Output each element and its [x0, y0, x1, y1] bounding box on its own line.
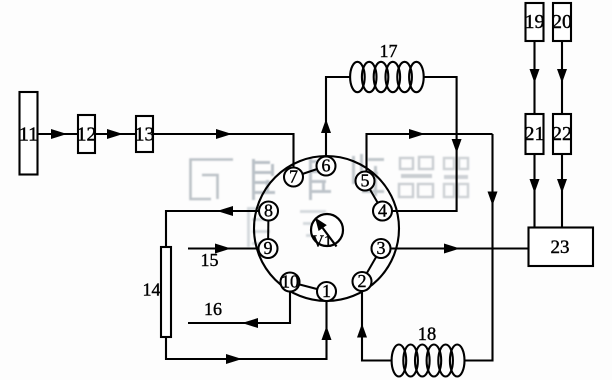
- wire coil 18 to port 2: [362, 291, 392, 361]
- arrow down 20-22: [557, 69, 567, 83]
- svg-text:15: 15: [201, 250, 219, 270]
- watermark glyph A: [252, 159, 275, 200]
- svg-text:6: 6: [322, 156, 331, 176]
- svg-text:7: 7: [289, 167, 298, 187]
- box 14: [143, 247, 172, 337]
- valve center circle V1: [311, 214, 343, 251]
- wire down to coil 18: [464, 134, 492, 361]
- wire 11 to 12: [38, 133, 79, 135]
- wire 12 to 13: [95, 133, 136, 135]
- svg-text:5: 5: [361, 171, 370, 191]
- arrow up into port 2: [357, 324, 367, 338]
- box 22: [552, 114, 572, 154]
- port 6: [317, 156, 336, 176]
- box 23: [529, 228, 594, 267]
- svg-text:8: 8: [264, 201, 273, 221]
- arrow right on port5 wire: [409, 129, 425, 139]
- arrow right 13-7: [216, 129, 232, 139]
- arrow right on port3 wire: [444, 244, 460, 254]
- arrow up into port 1: [322, 326, 332, 340]
- svg-text:V1: V1: [312, 232, 332, 251]
- arrow down on coil17-port4 wire: [452, 139, 462, 153]
- svg-text:21: 21: [525, 123, 545, 145]
- wire port 8 to box 14: [166, 211, 259, 247]
- arrow up into port6 line: [321, 119, 331, 133]
- port 7: [284, 167, 303, 187]
- svg-text:10: 10: [281, 272, 299, 292]
- watermark glyph D: [399, 157, 433, 197]
- arrow right 12-13: [107, 129, 123, 139]
- svg-text:20: 20: [552, 11, 572, 33]
- valve internal pair lines: [268, 166, 383, 292]
- svg-text:11: 11: [19, 124, 38, 146]
- svg-text:18: 18: [418, 325, 437, 345]
- wire port 6 up to coil 17: [326, 77, 350, 157]
- arrow left on port8 wire: [217, 206, 233, 216]
- arrow left on 16 wire: [242, 318, 258, 328]
- wire 13 to port 7: [153, 134, 294, 168]
- port 3: [372, 238, 391, 258]
- wire coil 17 to port 4: [392, 77, 457, 211]
- box 19: [525, 3, 545, 41]
- port 8: [259, 201, 278, 221]
- box 20: [552, 3, 572, 41]
- svg-text:14: 14: [143, 280, 161, 300]
- arrow down 21-23: [530, 179, 540, 193]
- svg-text:19: 19: [525, 11, 545, 33]
- coil 17: [350, 62, 424, 92]
- arrow right on bottom wire: [226, 354, 242, 364]
- box 21: [525, 114, 545, 154]
- arrow down 19-21: [530, 69, 540, 83]
- port 9: [259, 238, 278, 258]
- svg-text:17: 17: [380, 41, 398, 61]
- box 12: [77, 115, 97, 153]
- wire 21 to 23: [533, 154, 535, 227]
- port 4: [373, 201, 392, 221]
- wire 19 to 21: [533, 41, 535, 114]
- wire port 3 to box 23: [391, 247, 529, 249]
- coil 18: [392, 345, 465, 377]
- svg-text:9: 9: [264, 238, 273, 258]
- arrow right 11-12: [51, 129, 67, 139]
- port 1: [317, 281, 336, 301]
- port 5: [356, 171, 375, 191]
- wire 15 into port 9: [188, 247, 259, 249]
- svg-text:22: 22: [552, 123, 572, 145]
- port 2: [353, 271, 372, 291]
- watermark glyph E: [444, 158, 468, 197]
- svg-text:1: 1: [322, 281, 331, 301]
- svg-text:13: 13: [135, 124, 155, 146]
- watermark row2 faint: [247, 207, 328, 247]
- watermark glyph C: [352, 154, 384, 196]
- wire 22 to 23: [561, 154, 563, 227]
- watermark glyph B: [309, 158, 331, 200]
- wire 20 to 22: [561, 41, 563, 114]
- wire box14 to port 1: [166, 301, 327, 359]
- port 10: [281, 272, 300, 292]
- svg-text:23: 23: [551, 237, 570, 258]
- arrow down 22-23: [557, 179, 567, 193]
- watermark logo bracket: [191, 160, 234, 200]
- box 11: [19, 92, 38, 175]
- svg-text:3: 3: [377, 238, 386, 258]
- box 13: [135, 116, 155, 152]
- arrow right on 15 wire: [215, 244, 231, 254]
- arrow down on x492 wire: [488, 192, 498, 206]
- valve body circle: [254, 156, 399, 301]
- wire port 10 out to 16: [188, 292, 290, 324]
- wire port 5 up right: [367, 134, 493, 172]
- svg-text:2: 2: [358, 271, 367, 291]
- svg-text:12: 12: [77, 124, 97, 146]
- svg-text:4: 4: [378, 201, 387, 221]
- svg-text:16: 16: [204, 299, 222, 319]
